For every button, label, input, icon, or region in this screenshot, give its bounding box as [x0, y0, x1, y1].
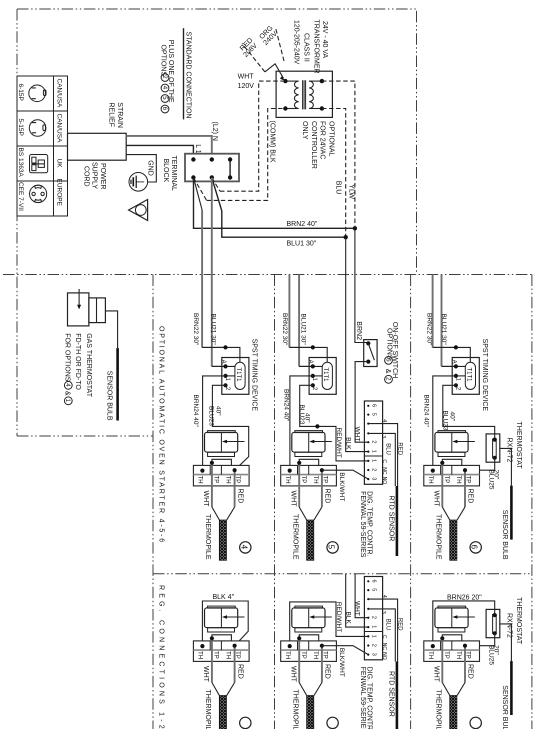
valve terminal block TH TP TH TP: [424, 465, 480, 486]
svg-text:CAN/USA: CAN/USA: [55, 114, 62, 144]
svg-text:REG. CONNECTIONS 1-2-3: REG. CONNECTIONS 1-2-3: [158, 585, 165, 729]
heading: [183, 28, 185, 119]
svg-text:THERMOPILE: THERMOPILE: [292, 690, 299, 729]
wire thermostat to TH2 (BLU25): [465, 458, 495, 470]
svg-text:WHT: WHT: [238, 73, 255, 80]
svg-text:TP: TP: [443, 476, 449, 484]
svg-text:THERMOSTAT: THERMOSTAT: [515, 597, 522, 645]
wire RED thermopile lead: [465, 646, 474, 683]
junction BLU1/BLU: [344, 235, 348, 239]
svg-text:OPTIONS: OPTIONS: [385, 328, 392, 360]
svg-text:WHT: WHT: [289, 666, 296, 683]
svg-text:5: 5: [371, 588, 377, 591]
SPST timing device T1T1: [289, 345, 336, 394]
svg-text:40": 40": [449, 412, 456, 422]
plug table: [17, 76, 68, 216]
svg-text:6: 6: [470, 545, 479, 550]
wire WHT thermopile lead: [432, 461, 444, 507]
wire BLU23 col5 + RED/WHT to pin1 lower: [300, 385, 369, 461]
svg-text:RED: RED: [467, 489, 474, 504]
svg-text:BLK: BLK: [345, 612, 352, 625]
svg-text:ONLY: ONLY: [301, 121, 308, 140]
node TH terminal: [288, 469, 292, 473]
svg-text:TH: TH: [197, 651, 203, 659]
wire thermostat to sensor bulb: [500, 448, 512, 485]
wire RED thermopile lead: [235, 646, 244, 683]
node TH2 terminal: [463, 644, 467, 648]
wire WHT thermopile lead: [202, 636, 214, 682]
svg-text:TP: TP: [300, 476, 306, 484]
dashed wire WHT 120V: [220, 81, 283, 191]
svg-text:120-205-240V: 120-205-240V: [293, 20, 300, 65]
node TH terminal: [431, 644, 435, 648]
dashed diagonal to WHT: [212, 178, 220, 192]
wire BLU21 col5: [298, 275, 300, 367]
svg-text:BLU: BLU: [334, 181, 341, 195]
svg-text:T1T1: T1T1: [235, 368, 241, 383]
svg-text:BLK 4": BLK 4": [213, 594, 235, 601]
svg-text:BRN22 30": BRN22 30": [192, 313, 199, 346]
dashed YLW / BLU secondary: [322, 81, 355, 226]
svg-text:5: 5: [371, 413, 377, 416]
svg-text:EUROPE: EUROPE: [55, 179, 62, 207]
7000 combination gas valve body: [292, 606, 332, 632]
wire WHT thermopile lead: [432, 636, 444, 682]
node TH2 terminal: [233, 468, 237, 472]
svg-text:TP: TP: [443, 651, 449, 659]
wire GND: [126, 155, 156, 182]
svg-text:&: &: [384, 369, 391, 374]
svg-text:BRN22 30": BRN22 30": [281, 313, 288, 346]
svg-text:(L2) N: (L2) N: [211, 122, 218, 141]
svg-text:3: 3: [371, 653, 377, 656]
node TH2 terminal: [320, 644, 324, 648]
svg-text:BRN2 40": BRN2 40": [287, 221, 318, 228]
svg-text:BLK: BLK: [345, 437, 352, 450]
sensor bulb (left): [105, 311, 117, 348]
svg-text:NO: NO: [381, 652, 387, 660]
wire valve internal to TH2: [442, 459, 465, 470]
svg-text:SPST TIMING DEVICE: SPST TIMING DEVICE: [481, 339, 488, 412]
svg-text:BS 1363A: BS 1363A: [17, 148, 24, 178]
7000 combination gas valve body: [292, 431, 332, 457]
svg-text:BRN2: BRN2: [355, 321, 362, 340]
svg-text:BLU: BLU: [385, 619, 391, 631]
wire BLU1: [212, 178, 346, 238]
jumper col3: [229, 160, 231, 178]
7000 combination gas valve body: [205, 431, 245, 457]
svg-text:WHT: WHT: [432, 491, 439, 508]
wire BRN22 col5: [288, 275, 290, 348]
wire BRN2 (YLW) to on-off switch: [355, 228, 368, 343]
valve terminal block TH TP TH TP: [193, 465, 249, 486]
wire BRN22 col4 feeder diagonal: [194, 178, 203, 210]
svg-text:A: A: [450, 360, 456, 364]
svg-text:4: 4: [381, 419, 387, 422]
thermopile: [204, 507, 234, 560]
wire BLK/WHT TH2 to pin3 lower: [322, 470, 368, 479]
leaders RED 208V / ORG 240V: [265, 64, 284, 78]
plug 5-15P: [17, 114, 62, 144]
svg-text:GAS THERMOSTAT: GAS THERMOSTAT: [85, 333, 92, 398]
svg-text:T1T1: T1T1: [465, 368, 471, 383]
circled 4: [240, 542, 251, 553]
wire WHT thermopile lead: [289, 461, 301, 507]
svg-text:TH: TH: [312, 651, 318, 659]
svg-text:THERMOSTAT: THERMOSTAT: [515, 422, 522, 470]
svg-text:TH: TH: [197, 476, 203, 484]
power supply cord: [68, 133, 127, 160]
svg-text:6: 6: [371, 404, 377, 407]
node TH terminal: [200, 469, 204, 473]
7000 combination gas valve body: [205, 606, 245, 632]
svg-text:BRN24 40": BRN24 40": [283, 389, 290, 422]
node TH terminal: [288, 644, 292, 648]
node TH terminal: [200, 644, 204, 648]
svg-text:SENSOR BULB: SENSOR BULB: [501, 685, 508, 729]
svg-text:A: A: [307, 360, 313, 364]
svg-text:CORD: CORD: [82, 166, 89, 187]
svg-text:CEE 7-VII: CEE 7-VII: [17, 182, 24, 211]
svg-text:TH: TH: [225, 476, 231, 484]
svg-text:RED: RED: [324, 489, 331, 504]
svg-text:NC: NC: [381, 643, 387, 651]
svg-text:1: 1: [371, 459, 377, 462]
svg-text:CLASS II: CLASS II: [303, 33, 310, 62]
wire WHT bottom: [355, 574, 368, 618]
svg-text:TH: TH: [455, 651, 461, 659]
wire BLU23 col4: [212, 385, 248, 470]
svg-text:BLU21 30": BLU21 30": [210, 314, 217, 346]
terminal block: [185, 154, 239, 182]
svg-text:TP: TP: [300, 651, 306, 659]
svg-text:20": 20": [493, 645, 500, 655]
wire RED thermopile lead: [322, 646, 331, 683]
svg-text:POWER: POWER: [99, 163, 106, 189]
wire BRN22 col6: [432, 275, 434, 348]
plug 6-15P: [17, 79, 62, 109]
wire RED thermopile lead: [235, 470, 244, 507]
svg-text:3: 3: [380, 435, 386, 438]
svg-text:2: 2: [371, 644, 377, 647]
node TH2 terminal: [233, 644, 237, 648]
svg-text:TH: TH: [312, 476, 318, 484]
svg-text:WHT: WHT: [353, 427, 360, 442]
svg-text:BLK/WHT: BLK/WHT: [338, 648, 345, 677]
svg-text:BLU1 30": BLU1 30": [287, 241, 317, 248]
wire BRN24 col6: [433, 376, 456, 471]
svg-text:1: 1: [371, 635, 377, 638]
svg-text:BRN24 40": BRN24 40": [423, 395, 430, 428]
svg-text:BRN26 20": BRN26 20": [447, 594, 482, 601]
wire valve internal to TH2: [212, 459, 235, 470]
wire switch to pin2 (WHT): [355, 362, 368, 443]
circled 6: [470, 717, 481, 728]
svg-text:SPST TIMING DEVICE: SPST TIMING DEVICE: [250, 339, 257, 412]
wire BLU cont (BLK) to pin 1: [346, 237, 369, 451]
svg-text:STRAIN: STRAIN: [116, 102, 123, 128]
svg-text:(COMM) BLK: (COMM) BLK: [269, 121, 276, 163]
thermostat RXN-72: [486, 609, 500, 637]
svg-text:C: C: [381, 459, 387, 463]
svg-text:RED: RED: [236, 664, 243, 679]
svg-text:NO: NO: [381, 477, 387, 485]
svg-text:BRN22 30": BRN22 30": [425, 313, 432, 346]
wire RED thermopile lead: [465, 470, 474, 507]
svg-text:1: 1: [371, 625, 377, 628]
svg-text:BLU21 30": BLU21 30": [440, 314, 447, 346]
svg-text:TP: TP: [213, 651, 219, 659]
svg-text:STANDARD CONNECTION: STANDARD CONNECTION: [184, 32, 191, 119]
transformer T1: [276, 71, 332, 117]
svg-text:TRANSFORMER: TRANSFORMER: [312, 20, 319, 74]
valve terminal block TH TP TH TP: [281, 641, 337, 662]
wire BLU21 col6: [441, 275, 443, 367]
svg-text:FOR OPTIONS: FOR OPTIONS: [64, 333, 71, 382]
svg-text:BLU23: BLU23: [208, 406, 215, 426]
wire BRN24 col5: [290, 376, 313, 471]
svg-text:RED: RED: [397, 442, 403, 455]
wire BLU21 col4: [211, 178, 213, 367]
svg-text:RTD SENSOR: RTD SENSOR: [388, 671, 395, 717]
svg-text:BLOCK: BLOCK: [162, 159, 169, 183]
thermopile: [204, 683, 234, 729]
ground: [129, 160, 153, 191]
svg-text:5: 5: [327, 545, 336, 550]
wire BRN22 col4: [201, 210, 203, 347]
svg-text:WHT: WHT: [202, 666, 209, 683]
circled 5: [327, 717, 338, 728]
svg-text:2: 2: [371, 440, 377, 443]
on-off switch: [364, 340, 377, 367]
svg-text:120V: 120V: [238, 83, 255, 90]
node TH2 terminal: [320, 468, 324, 472]
wire BRN2 from L1 terminal: [194, 178, 355, 229]
svg-text:RED: RED: [467, 664, 474, 679]
wire WHT thermopile lead: [202, 461, 214, 507]
thermopile: [292, 683, 322, 729]
svg-text:20": 20": [493, 470, 500, 480]
svg-text:FENWAL 59-SERIES: FENWAL 59-SERIES: [359, 491, 366, 558]
svg-text:BLU21 30": BLU21 30": [299, 314, 306, 346]
svg-text:BRN24 40": BRN24 40": [192, 395, 199, 428]
wire L2/N gray: [126, 136, 212, 158]
svg-text:L 1: L 1: [194, 144, 201, 154]
svg-text:PLUS ONE OF THE: PLUS ONE OF THE: [167, 40, 174, 103]
svg-text:TH: TH: [427, 476, 433, 484]
svg-text:RED: RED: [236, 489, 243, 504]
wire BLK bottom: [346, 574, 369, 627]
svg-text:TH: TH: [284, 476, 290, 484]
svg-text:BLU23: BLU23: [442, 411, 449, 431]
svg-text:RTD SENSOR: RTD SENSOR: [388, 496, 395, 542]
circled 4: [240, 717, 251, 728]
svg-text:SENSOR BULB: SENSOR BULB: [106, 371, 113, 421]
svg-text:WHT: WHT: [353, 601, 360, 616]
svg-text:6: 6: [371, 580, 377, 583]
svg-text:OPTIONAL AUTOMATIC OVEN STARTE: OPTIONAL AUTOMATIC OVEN STARTER 4-5-6: [158, 326, 165, 544]
dashed wire (COMM) BLK: [207, 109, 283, 201]
7000 combination gas valve body: [435, 431, 475, 457]
dashed diagonal to COMM BLK: [194, 178, 207, 201]
svg-text:THERMOPILE: THERMOPILE: [204, 690, 211, 729]
svg-text:C: C: [381, 635, 387, 639]
svg-text:TP: TP: [213, 476, 219, 484]
svg-text:3: 3: [371, 477, 377, 480]
svg-text:RED: RED: [324, 664, 331, 679]
wire valve internal to TH2: [442, 635, 465, 646]
wire RED thermopile lead: [322, 470, 331, 507]
svg-text:RED: RED: [397, 618, 403, 631]
circled 6: [470, 542, 481, 553]
svg-text:2: 2: [371, 616, 377, 619]
svg-text:THERMOPILE: THERMOPILE: [435, 514, 442, 560]
warning triangle: [129, 200, 148, 221]
svg-text:5-15P: 5-15P: [17, 119, 24, 136]
svg-text:YLW: YLW: [347, 184, 354, 199]
svg-text:THERMOPILE: THERMOPILE: [435, 690, 442, 729]
svg-text:TERMINAL: TERMINAL: [170, 156, 177, 192]
RTD sensor probe: [359, 662, 397, 729]
svg-text:BLK/WHT: BLK/WHT: [338, 472, 345, 501]
valve terminal block TH TP TH TP: [193, 641, 249, 662]
plug UK BS1363A: [17, 148, 62, 178]
svg-text:WHT: WHT: [432, 666, 439, 683]
svg-text:&: &: [64, 391, 71, 396]
svg-text:A: A: [220, 360, 226, 364]
svg-text:NC: NC: [381, 467, 387, 475]
svg-text:TH: TH: [427, 651, 433, 659]
circled 5: [327, 542, 338, 553]
wire valve internal to TH2: [299, 635, 322, 646]
Fenwal 59-series controller connector: [364, 401, 402, 486]
svg-text:THERMOPILE: THERMOPILE: [204, 514, 211, 560]
svg-text:OPTIONAL: OPTIONAL: [328, 121, 335, 157]
valve terminal block TH TP TH TP: [424, 641, 480, 662]
svg-text:SENSOR BULB: SENSOR BULB: [501, 510, 508, 560]
wire RED/WHT TH1 loop to pin1 lower: [290, 602, 369, 646]
svg-text:OPTIONS: OPTIONS: [159, 45, 166, 77]
svg-text:WHT: WHT: [202, 491, 209, 508]
node TH terminal: [431, 469, 435, 473]
svg-text:6-15P: 6-15P: [17, 84, 24, 101]
junction BRN2/YLW: [353, 226, 357, 230]
svg-text:1: 1: [371, 450, 377, 453]
SPST timing device T1T1: [433, 345, 480, 394]
svg-text:FD-TH OR FD-TO: FD-TH OR FD-TO: [74, 333, 81, 390]
plug Europe CEE 7-VII: [17, 179, 62, 212]
svg-text:24V - 40 VA: 24V - 40 VA: [321, 21, 328, 59]
svg-text:CAN/USA: CAN/USA: [55, 79, 62, 109]
svg-text:T1T1: T1T1: [322, 368, 328, 383]
SPST timing device T1T1: [202, 345, 249, 394]
7000 combination gas valve body: [435, 606, 475, 632]
node TH2 terminal: [463, 468, 467, 472]
gas thermostat FD-TH: [68, 289, 106, 326]
svg-text:BLU23: BLU23: [298, 405, 305, 425]
svg-text:UK: UK: [55, 159, 62, 169]
svg-text:RED/WHT: RED/WHT: [335, 602, 342, 632]
wire BLU23 col6 to thermostat: [443, 385, 495, 439]
svg-text:2: 2: [371, 468, 377, 471]
wire BLK/WHT bottom: [322, 646, 368, 655]
border: sheet frame dash-dot: [17, 9, 417, 275]
svg-text:SUPPLY: SUPPLY: [91, 162, 98, 189]
Fenwal 59-series controller connector: [364, 577, 402, 662]
svg-text:FENWAL 59-SERIES: FENWAL 59-SERIES: [359, 667, 366, 729]
svg-text:RED/WHT: RED/WHT: [335, 428, 342, 458]
svg-text:GND: GND: [146, 160, 153, 176]
svg-text:WHT: WHT: [289, 491, 296, 508]
svg-text:THERMOPILE: THERMOPILE: [292, 514, 299, 560]
wire BRN24 col4: [202, 376, 225, 471]
svg-text:3: 3: [380, 611, 386, 614]
RTD sensor probe: [359, 486, 397, 558]
wire valve internal to TH2: [299, 459, 322, 470]
svg-text:CONTROLLER: CONTROLLER: [310, 121, 317, 169]
svg-text:4: 4: [381, 595, 387, 598]
svg-text:TH: TH: [455, 476, 461, 484]
thermopile: [435, 683, 465, 729]
svg-text:40": 40": [215, 406, 222, 416]
wire WHT thermopile lead: [289, 636, 301, 682]
svg-text:TH: TH: [284, 651, 290, 659]
svg-text:BLU: BLU: [385, 443, 391, 455]
svg-text:RELIEF: RELIEF: [108, 103, 115, 128]
thermopile: [292, 507, 322, 560]
svg-text:TH: TH: [225, 651, 231, 659]
thermopile: [435, 507, 465, 560]
svg-text:4: 4: [239, 545, 248, 550]
wire L1: [126, 145, 193, 158]
thermostat RXN-72: [486, 434, 500, 462]
wire valve internal to TH2: [212, 635, 235, 646]
valve terminal block TH TP TH TP: [281, 465, 337, 486]
svg-text:FOR 24VAC: FOR 24VAC: [319, 121, 326, 159]
